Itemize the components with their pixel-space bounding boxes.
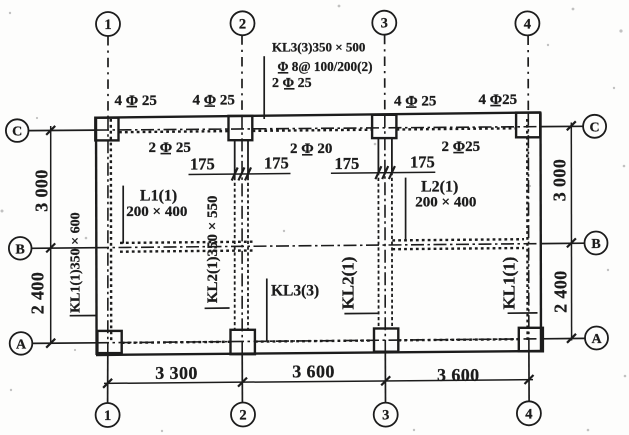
svg-text:KL1(1)350 × 600: KL1(1)350 × 600 [69, 212, 84, 313]
svg-text:Φ 8@ 100/200(2): Φ 8@ 100/200(2) [278, 59, 373, 74]
column A1 [97, 331, 121, 353]
column C2 [229, 116, 253, 140]
grid bubble C right [583, 115, 606, 138]
svg-text:3 300: 3 300 [155, 363, 198, 383]
building outline bottom edge [96, 351, 541, 355]
building outline top edge [96, 112, 541, 117]
beam KL2 right edge (axis 3) dashed [391, 172, 393, 329]
svg-text:175: 175 [410, 153, 435, 172]
svg-text:C: C [12, 125, 22, 140]
svg-text:3 000: 3 000 [32, 169, 52, 212]
svg-text:1: 1 [104, 17, 111, 33]
svg-text:2 400: 2 400 [28, 272, 48, 315]
175 dimension line at axis 3 [331, 172, 435, 173]
beam KL2 left edge (axis 2) dashed [234, 177, 236, 330]
left dimension line [50, 126, 52, 344]
svg-text:200 × 400: 200 × 400 [126, 204, 187, 220]
axis line 1 vertical [107, 36, 109, 118]
grid bubble 2 bottom [231, 403, 255, 427]
left dim tick at C [46, 126, 55, 135]
beam KL2 left edge (axis 3) solid stub [377, 138, 379, 172]
beam KL2 right edge (axis 2) solid stub [247, 140, 249, 177]
svg-text:2: 2 [239, 16, 246, 32]
beam KL3 inner edge dotted, bay 1-2 (axis C) [119, 131, 229, 132]
grid bubble 1 bottom [96, 403, 120, 427]
beam KL3 inner edge dotted, bay 3-4 (axis A) [398, 339, 519, 340]
svg-text:4: 4 [525, 406, 532, 422]
column A3 [374, 329, 398, 352]
beam KL2 right edge (axis 3) solid stub [391, 138, 393, 172]
beam KL3 inner edge dotted, bay 2-3 (axis C) [253, 130, 373, 131]
building outline right edge [539, 112, 542, 351]
grid bubble 2 top [231, 11, 255, 35]
svg-text:C: C [590, 120, 600, 135]
svg-text:2 400: 2 400 [551, 270, 571, 313]
beam KL1 inner edge dotted (axis 1) [110, 119, 113, 342]
svg-text:L2(1): L2(1) [421, 178, 458, 195]
right dim tick at C [567, 121, 576, 130]
grid bubble 4 bottom [517, 401, 541, 425]
building outline left edge [95, 118, 98, 355]
svg-text:175: 175 [335, 154, 360, 173]
bottom dim tick at axis 3 [381, 376, 390, 385]
grid bubble 1 top [96, 12, 120, 36]
svg-text:3 600: 3 600 [292, 362, 335, 382]
grid bubble 3 top [372, 11, 396, 35]
beam KL2 right edge (axis 2) dashed [247, 177, 249, 330]
svg-text:1: 1 [104, 408, 111, 424]
column A4 [519, 328, 543, 352]
leader for KL1(1)350x600 [70, 315, 98, 317]
beam KL3 inner edge dotted, bay 2-3 (axis A) [255, 341, 374, 342]
grid bubble 4 top [515, 11, 539, 35]
svg-text:200 × 400: 200 × 400 [415, 195, 476, 211]
left dim tick at B [46, 243, 55, 252]
svg-text:3: 3 [382, 408, 389, 424]
grid bubble A right [585, 327, 608, 350]
bottom dim tick at axis 1 [103, 379, 112, 388]
leader for KL3(3) [266, 279, 268, 342]
axis line C horizontal [29, 129, 97, 132]
grid bubble A left [10, 332, 33, 355]
axis line 2 vertical [241, 35, 243, 116]
leader for KL1(1) near axis 4 [508, 312, 538, 314]
grid bubble C left [6, 119, 29, 142]
bottom dim tick at axis 2 [238, 378, 247, 387]
svg-text:2: 2 [239, 408, 246, 424]
bottom dimension line [104, 380, 533, 384]
beam L1 top edge dotted (axis B bay 1-2) [120, 242, 253, 243]
beam KL3 inner edge dotted, bay 3-4 (axis C) [397, 128, 517, 129]
bottom dim tick at axis 4 [525, 375, 534, 384]
axis line A horizontal [32, 342, 96, 345]
svg-text:4: 4 [524, 16, 531, 32]
svg-text:KL2(1): KL2(1) [339, 257, 358, 310]
right dim tick at B [567, 238, 576, 247]
beam L2 bottom edge dotted (axis B bay 3-4) [392, 248, 524, 249]
svg-text:175: 175 [264, 154, 289, 173]
right dimension line [570, 123, 572, 341]
column A2 [231, 330, 255, 354]
left dim tick at A [46, 339, 55, 348]
right dim tick at A [567, 334, 576, 343]
svg-text:KL3(3): KL3(3) [271, 283, 319, 300]
svg-text:KL2(1)350 × 550: KL2(1)350 × 550 [205, 195, 221, 303]
leader for beam title [263, 56, 265, 119]
175 dim ticks at axis 3 [375, 166, 381, 179]
axis line B horizontal [32, 247, 97, 250]
column C3 [372, 115, 396, 138]
axis line 4 vertical [527, 36, 529, 113]
beam L2 top edge dotted (axis B bay 3-4) [392, 239, 524, 240]
svg-text:175: 175 [190, 154, 215, 173]
grid bubble B right [585, 232, 608, 255]
svg-text:3: 3 [381, 16, 388, 32]
column C4 [516, 113, 540, 138]
svg-text:L1(1): L1(1) [140, 188, 177, 205]
leader for L1(1) [122, 186, 124, 244]
svg-text:KL1(1): KL1(1) [500, 257, 519, 310]
axis line 3 vertical [384, 35, 386, 115]
leader for KL2(1)350x550 [205, 307, 230, 309]
beam KL2 left edge (axis 3) dashed [377, 172, 379, 329]
svg-text:A: A [591, 332, 602, 347]
grid bubble 3 bottom [374, 403, 398, 427]
175 dimension line at axis 2 [189, 174, 291, 175]
leader for L2(1) [405, 178, 407, 240]
beam KL2 left edge (axis 2) solid stub [234, 140, 236, 177]
svg-text:3 600: 3 600 [437, 365, 480, 385]
column C1 [95, 118, 118, 141]
beam KL1 inner edge dotted (axis 4) [526, 119, 529, 340]
svg-text:KL3(3)350 × 500: KL3(3)350 × 500 [272, 40, 365, 55]
175 dim ticks at axis 2 [232, 168, 238, 181]
leader for KL2(1) near axis 3 [344, 312, 379, 314]
svg-text:3 000: 3 000 [550, 159, 570, 202]
svg-text:A: A [16, 337, 27, 352]
svg-text:B: B [16, 242, 25, 257]
svg-text:B: B [591, 237, 600, 252]
beam L1 bottom edge dotted (axis B bay 1-2) [120, 251, 253, 252]
beam KL3 inner edge dotted, bay 1-2 (axis A) [122, 342, 231, 343]
grid bubble B left [9, 237, 32, 260]
